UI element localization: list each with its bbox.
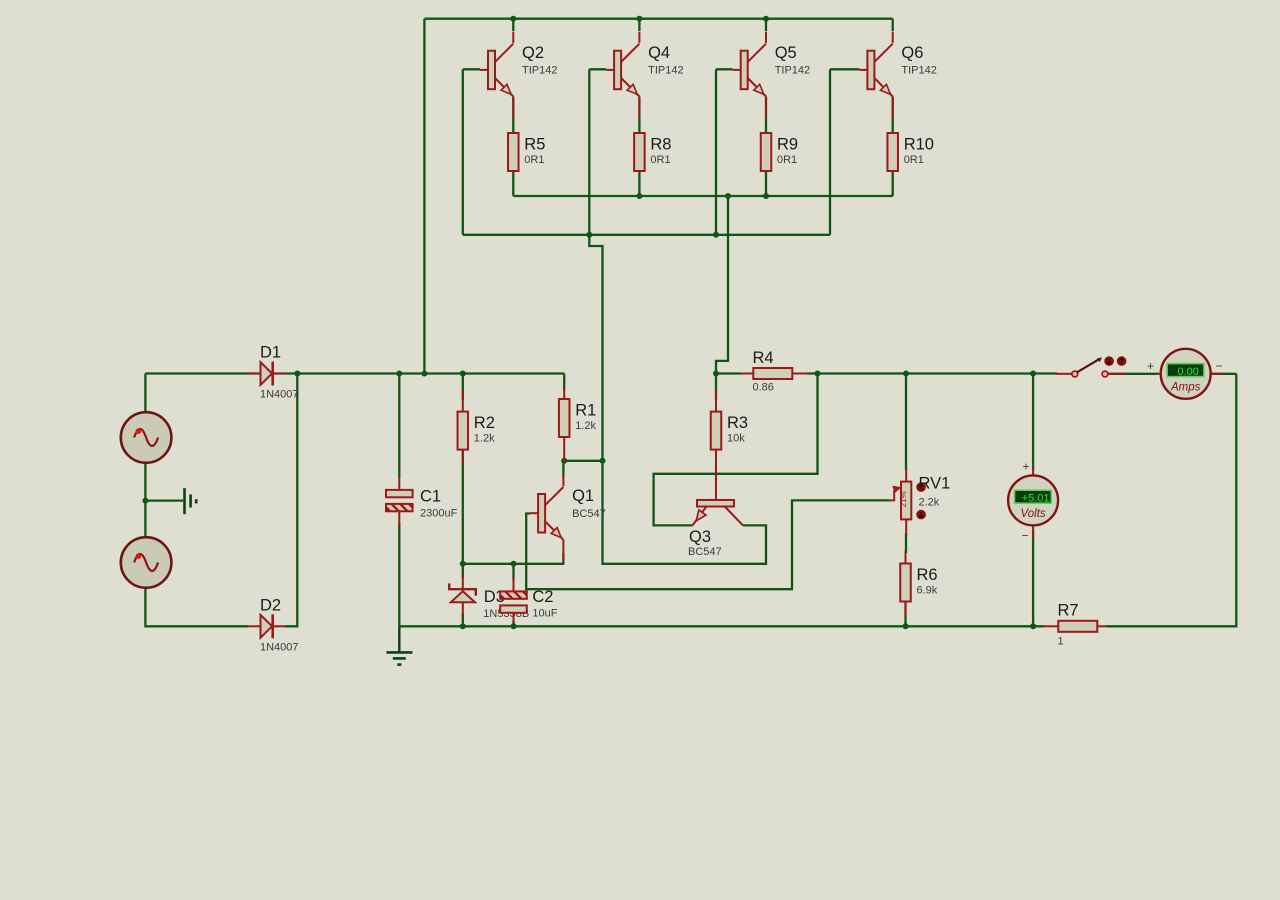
wire emitter-resistor link 0 bbox=[512, 97, 514, 134]
svg-text:Q5: Q5 bbox=[775, 44, 797, 62]
label Q2 name bbox=[522, 44, 544, 62]
label C2 name bbox=[532, 588, 553, 606]
wire R4 left wire bbox=[716, 372, 742, 374]
svg-text:Q1: Q1 bbox=[572, 487, 594, 505]
label voltmeter plus bbox=[1022, 460, 1029, 474]
junction base rail node Q4 bbox=[586, 232, 592, 238]
svg-text:R9: R9 bbox=[777, 136, 798, 154]
label R2 name bbox=[474, 414, 495, 432]
label Q2 value bbox=[522, 65, 557, 77]
resistor R4 body bbox=[753, 368, 792, 379]
label Q6 value bbox=[901, 65, 936, 77]
wire centre-tap stub bbox=[145, 499, 183, 501]
svg-text:−: − bbox=[1021, 529, 1028, 543]
wire resistor to emitter rail 2 bbox=[765, 172, 767, 197]
wire RV1 top wire bbox=[905, 374, 907, 471]
resistor R2 body bbox=[458, 412, 469, 450]
junction R2 node bbox=[460, 371, 466, 377]
label voltmeter minus bbox=[1021, 529, 1028, 543]
label Q5 value bbox=[775, 65, 810, 77]
svg-text:BC547: BC547 bbox=[572, 508, 606, 520]
ground (centre tap) bbox=[185, 488, 197, 514]
label R1 value bbox=[575, 420, 596, 432]
wire reference net bbox=[463, 563, 564, 565]
svg-text:Q6: Q6 bbox=[901, 44, 923, 62]
label D3 value bbox=[483, 608, 529, 620]
svg-text:TIP142: TIP142 bbox=[901, 65, 936, 77]
svg-text:C2: C2 bbox=[532, 588, 553, 606]
wire base rail bbox=[463, 234, 830, 236]
switch interact button 1 bbox=[1104, 356, 1114, 366]
ground (main) bbox=[386, 626, 412, 664]
R3 top pin bbox=[715, 390, 717, 412]
label R3 name bbox=[727, 414, 748, 432]
svg-text:Q4: Q4 bbox=[648, 44, 670, 62]
wire ground rail bbox=[399, 625, 1043, 627]
junction drive node bbox=[600, 458, 606, 464]
junction R1 bottom node bbox=[561, 458, 567, 464]
junction reference node C2 bbox=[511, 561, 517, 567]
capacitor C2 bbox=[500, 591, 527, 612]
wire emitter-resistor link 1 bbox=[638, 97, 640, 134]
wire ground rail right of R7 bbox=[1105, 374, 1236, 627]
wire C1 bottom wire bbox=[398, 523, 400, 626]
transistor Q2 bbox=[480, 32, 513, 119]
svg-text:0.86: 0.86 bbox=[753, 382, 774, 394]
label R6 value bbox=[917, 585, 938, 597]
wire output rail bbox=[818, 372, 1058, 374]
junction ground node C2 bbox=[511, 623, 517, 629]
wire R4 right wire bbox=[807, 372, 818, 374]
label D2 name bbox=[260, 596, 281, 614]
svg-text:Volts: Volts bbox=[1021, 508, 1046, 520]
wire R6 bottom wire bbox=[904, 602, 906, 626]
meter AM1 (Amps) bbox=[1161, 349, 1211, 399]
wire left drop of collector rail bbox=[423, 19, 425, 374]
diode D2 bbox=[248, 614, 286, 638]
svg-text:D2: D2 bbox=[260, 596, 281, 614]
label C1 name bbox=[420, 488, 441, 506]
R2 bottom pin bbox=[462, 450, 464, 466]
resistor R7 body bbox=[1058, 621, 1097, 632]
wire base drop Q5 bbox=[715, 69, 717, 235]
label R7 value bbox=[1058, 635, 1064, 647]
junction output node R4L bbox=[713, 371, 719, 377]
wire emitter rail to output node bbox=[716, 196, 728, 374]
zener diode D3 bbox=[449, 575, 476, 616]
svg-text:0R1: 0R1 bbox=[904, 154, 924, 166]
junction rectifier node bbox=[294, 371, 300, 377]
wire source bottom wire bbox=[145, 588, 248, 627]
svg-text:RV1: RV1 bbox=[919, 475, 951, 493]
svg-text:21%: 21% bbox=[899, 491, 908, 507]
resistor R9 body bbox=[761, 133, 772, 171]
label D2 value bbox=[260, 641, 299, 653]
svg-text:R6: R6 bbox=[917, 566, 938, 584]
label Q3 name bbox=[689, 528, 711, 546]
R7 right pin bbox=[1097, 625, 1105, 627]
label Q6 name bbox=[901, 44, 923, 62]
resistor R10 body bbox=[887, 133, 898, 171]
svg-text:BC547: BC547 bbox=[688, 546, 722, 558]
wire voltmeter bottom wire bbox=[1032, 531, 1034, 626]
svg-text:R3: R3 bbox=[727, 414, 748, 432]
label ammeter minus bbox=[1215, 359, 1222, 373]
switch interact button 2 bbox=[1117, 356, 1127, 366]
label Q1 value bbox=[572, 508, 606, 520]
junction output node R4R bbox=[815, 371, 821, 377]
label ammeter plus bbox=[1147, 359, 1154, 373]
wire base wire Q2 bbox=[463, 68, 480, 70]
C2 top pin bbox=[513, 578, 515, 592]
transistor Q5 bbox=[733, 32, 766, 119]
wire base drop Q6 bbox=[829, 69, 831, 235]
wire C1 top wire bbox=[398, 374, 400, 479]
label R4 name bbox=[753, 349, 774, 367]
capacitor C1 bbox=[386, 490, 413, 511]
svg-text:6.9k: 6.9k bbox=[917, 585, 938, 597]
label R8 name bbox=[650, 136, 671, 154]
svg-text:−: − bbox=[1215, 359, 1222, 373]
junction base rail node Q5 bbox=[713, 232, 719, 238]
label Q4 value bbox=[648, 65, 683, 77]
wire C2 top link bbox=[512, 564, 514, 580]
svg-text:R1: R1 bbox=[575, 402, 596, 420]
wire collector stub Q4 bbox=[638, 19, 640, 31]
label D3 name bbox=[484, 588, 505, 606]
junction ground node D3 bbox=[460, 623, 466, 629]
label R9 value bbox=[777, 154, 797, 166]
R6 bottom pin bbox=[905, 602, 907, 616]
junction output node RV1 bbox=[903, 371, 909, 377]
label Q1 name bbox=[572, 487, 594, 505]
svg-text:+: + bbox=[1147, 359, 1154, 373]
wire current sense net bbox=[654, 374, 818, 526]
label R5 name bbox=[524, 136, 545, 154]
svg-text:0R1: 0R1 bbox=[524, 154, 544, 166]
label R10 name bbox=[904, 136, 934, 154]
R2 top pin bbox=[462, 390, 464, 412]
svg-text:1N4007: 1N4007 bbox=[260, 641, 299, 653]
svg-text:0R1: 0R1 bbox=[650, 154, 670, 166]
wire ammeter right wire bbox=[1212, 373, 1236, 375]
AC source V1 bbox=[121, 412, 172, 463]
ammeter right pin bbox=[1211, 373, 1224, 375]
svg-text:D1: D1 bbox=[260, 344, 281, 362]
C1 bottom pin bbox=[398, 512, 400, 527]
resistor R6 body bbox=[900, 564, 911, 602]
svg-text:R4: R4 bbox=[753, 349, 774, 367]
meter VM1 (Volts) bbox=[1008, 475, 1058, 525]
label C2 value bbox=[532, 608, 557, 620]
junction ground node R6 bbox=[903, 623, 909, 629]
voltmeter top pin bbox=[1032, 466, 1034, 476]
junction collector rail node x513 bbox=[510, 16, 516, 22]
label R8 value bbox=[650, 154, 670, 166]
label R1 name bbox=[575, 402, 596, 420]
AC source V2 bbox=[121, 537, 172, 588]
R4 left pin bbox=[740, 373, 753, 375]
svg-text:TIP142: TIP142 bbox=[775, 65, 810, 77]
wire C2 bottom link bbox=[512, 621, 514, 626]
junction collector rail node x639 bbox=[636, 16, 642, 22]
label RV1 name bbox=[919, 475, 951, 493]
junction reference node R2 bbox=[460, 561, 466, 567]
label Q3 value bbox=[688, 546, 722, 558]
RV1 down button bbox=[916, 510, 926, 520]
svg-text:1.2k: 1.2k bbox=[575, 420, 596, 432]
label R6 name bbox=[917, 566, 938, 584]
wire source top wire bbox=[144, 374, 146, 413]
wire top collector rail bbox=[424, 18, 892, 20]
resistor R3 body bbox=[711, 412, 722, 450]
svg-text:10k: 10k bbox=[727, 433, 745, 445]
wire voltmeter top wire bbox=[1032, 374, 1034, 471]
transistor Q6 bbox=[859, 32, 892, 119]
svg-text:Amps: Amps bbox=[1170, 381, 1201, 393]
wire R3 top wire bbox=[715, 374, 717, 401]
wire D3 link bbox=[462, 564, 464, 578]
wire resistor to emitter rail 0 bbox=[512, 172, 514, 197]
wire base drop Q4 bbox=[588, 69, 590, 235]
wire R1 bottom link bbox=[564, 460, 602, 462]
label R7 name bbox=[1058, 601, 1079, 619]
svg-text:+5.01: +5.01 bbox=[1022, 493, 1050, 505]
wire R2 bottom wire bbox=[462, 450, 464, 564]
resistor R1 body bbox=[559, 399, 570, 437]
wire R1 top pin wire bbox=[563, 374, 565, 391]
wire source mid wire bbox=[144, 463, 146, 537]
junction output node voltmeter bbox=[1030, 371, 1036, 377]
svg-text:+: + bbox=[1022, 460, 1029, 474]
wire ammeter left wire bbox=[1108, 373, 1158, 375]
junction ground node voltmeter bbox=[1030, 623, 1036, 629]
svg-text:R8: R8 bbox=[650, 136, 671, 154]
svg-text:R2: R2 bbox=[474, 414, 495, 432]
svg-text:2300uF: 2300uF bbox=[420, 508, 458, 520]
label R3 value bbox=[727, 433, 745, 445]
label D1 name bbox=[260, 344, 281, 362]
transistor Q1 bbox=[530, 475, 563, 562]
svg-text:R10: R10 bbox=[904, 136, 934, 154]
wire resistor to emitter rail 3 bbox=[892, 172, 894, 197]
label R5 value bbox=[524, 154, 544, 166]
label R10 value bbox=[904, 154, 924, 166]
svg-text:R7: R7 bbox=[1058, 601, 1079, 619]
junction C1 node bbox=[396, 371, 402, 377]
label C1 value bbox=[420, 508, 458, 520]
label D1 value bbox=[260, 389, 299, 401]
diode D1 bbox=[248, 362, 286, 386]
wire Q1 collector wire bbox=[562, 461, 564, 477]
junction centre tap node bbox=[142, 498, 148, 504]
wire collector stub Q6 bbox=[892, 19, 894, 31]
wire emitter rail bbox=[513, 195, 892, 197]
label RV1 value bbox=[919, 497, 940, 509]
wire base wire Q4 bbox=[589, 68, 606, 70]
wire Q1 emitter wire bbox=[562, 553, 564, 564]
svg-text:Q2: Q2 bbox=[522, 44, 544, 62]
wire collector stub Q2 bbox=[512, 19, 514, 31]
junction emitter rail node R8 bbox=[636, 193, 642, 199]
junction emitter rail node R9 bbox=[763, 193, 769, 199]
svg-text:TIP142: TIP142 bbox=[648, 65, 683, 77]
label Q4 name bbox=[648, 44, 670, 62]
wire base wire Q5 bbox=[716, 68, 733, 70]
wire D2 cathode riser bbox=[285, 374, 297, 627]
wire D3 to ground rail bbox=[462, 613, 464, 626]
wire emitter-resistor link 3 bbox=[892, 97, 894, 134]
junction rail drop node bbox=[421, 371, 427, 377]
svg-text:R5: R5 bbox=[524, 136, 545, 154]
label Q5 name bbox=[775, 44, 797, 62]
R7 left pin bbox=[1043, 625, 1058, 627]
svg-text:1: 1 bbox=[1058, 635, 1064, 647]
R3 bottom pin bbox=[715, 450, 717, 501]
wire main rail bbox=[145, 372, 564, 374]
R4 right pin bbox=[792, 373, 809, 375]
svg-text:Q3: Q3 bbox=[689, 528, 711, 546]
svg-text:0R1: 0R1 bbox=[777, 154, 797, 166]
wire collector stub Q5 bbox=[765, 19, 767, 31]
R1 top pin bbox=[563, 388, 565, 400]
wire base drop Q2 bbox=[462, 69, 464, 235]
wire emitter-resistor link 2 bbox=[765, 97, 767, 134]
wire R2 top pin wire bbox=[462, 374, 464, 401]
transistor Q3 bbox=[693, 450, 744, 526]
R1 bottom pin bbox=[563, 437, 565, 460]
label R9 name bbox=[777, 136, 798, 154]
switch SW1 bbox=[1056, 358, 1125, 377]
label R4 value bbox=[753, 382, 774, 394]
svg-text:10uF: 10uF bbox=[532, 608, 557, 620]
wire resistor to emitter rail 1 bbox=[638, 172, 640, 197]
wire RV1 to R6 wire bbox=[905, 533, 907, 553]
transistor Q4 bbox=[606, 32, 639, 119]
svg-text:1.2k: 1.2k bbox=[474, 433, 495, 445]
C2 bottom pin bbox=[513, 612, 515, 622]
resistor R5 body bbox=[508, 133, 519, 171]
wire drive node to Q3 collector bbox=[603, 461, 767, 564]
wire base rail to drive node bbox=[589, 235, 602, 461]
R6 top pin bbox=[905, 551, 907, 564]
junction collector rail node x766 bbox=[763, 16, 769, 22]
wire Q1 base wire bbox=[526, 500, 890, 589]
voltmeter bottom pin bbox=[1032, 525, 1034, 539]
C1 top pin bbox=[398, 476, 400, 490]
potentiometer RV1 bbox=[890, 468, 911, 535]
wire base wire Q6 bbox=[830, 68, 859, 70]
svg-text:2.2k: 2.2k bbox=[919, 497, 940, 509]
label R2 value bbox=[474, 433, 495, 445]
svg-text:TIP142: TIP142 bbox=[522, 65, 557, 77]
svg-text:C1: C1 bbox=[420, 488, 441, 506]
ammeter left pin bbox=[1156, 373, 1161, 375]
svg-text:0.00: 0.00 bbox=[1177, 366, 1198, 378]
RV1 up button bbox=[916, 482, 926, 492]
resistor R8 body bbox=[634, 133, 645, 171]
svg-text:1N4007: 1N4007 bbox=[260, 389, 299, 401]
junction emitter rail node jog bbox=[725, 193, 731, 199]
